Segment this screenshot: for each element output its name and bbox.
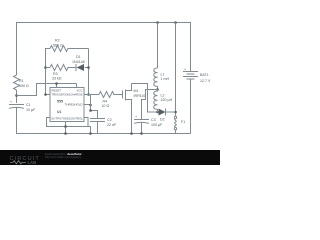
svg-text:100 µF: 100 µF [151, 123, 163, 127]
svg-text:IRF510: IRF510 [134, 94, 146, 98]
svg-text:1N4148: 1N4148 [72, 60, 85, 64]
svg-text:LAB: LAB [28, 160, 37, 165]
node out rail [89, 132, 92, 135]
svg-text:C3: C3 [151, 118, 156, 122]
svg-text:12.7 V: 12.7 V [200, 79, 211, 83]
svg-text:OUTPUT: OUTPUT [51, 117, 63, 121]
fuse F1 [174, 116, 176, 118]
node gnd rail [64, 132, 67, 135]
svg-text:+: + [135, 115, 137, 119]
node top-D2 [174, 21, 177, 24]
transistor M1 [114, 94, 123, 96]
svg-text:L1: L1 [161, 73, 165, 77]
capacitor C2 [90, 118, 105, 120]
svg-text:+: + [10, 100, 12, 104]
wire C2 drop [91, 95, 98, 119]
node threshold [89, 104, 92, 107]
wire D2 cathode drop [175, 23, 177, 117]
wire gnd stub [65, 122, 67, 134]
svg-text:M1: M1 [134, 89, 139, 93]
wire R1 to C1 [16, 90, 18, 103]
wire C2 to gnd [97, 122, 99, 134]
node source rail [130, 132, 133, 135]
node B [156, 88, 159, 91]
wire C1 to gnd [17, 108, 191, 134]
wire C3 jog [142, 90, 158, 120]
node D1 right [87, 66, 90, 69]
svg-text:560 Ω: 560 Ω [53, 44, 63, 48]
pin vcc stub [76, 84, 78, 88]
node drain [156, 111, 159, 114]
svg-text:22 nF: 22 nF [107, 123, 117, 127]
node reset-vcc [55, 82, 58, 85]
wire vcc filter [17, 84, 77, 96]
wire top rail [17, 23, 191, 76]
svg-text:D1: D1 [76, 55, 81, 59]
footer bar [0, 150, 220, 165]
wire drain bracket [132, 84, 158, 113]
wire threshold [84, 104, 91, 106]
capacitor C1 [9, 104, 24, 106]
diode D2 [158, 111, 159, 113]
svg-text:555: 555 [57, 100, 63, 104]
wire battery neg [190, 79, 192, 134]
svg-text:10 Ω: 10 Ω [102, 104, 110, 108]
node C2 [89, 109, 92, 112]
resistor R3 [50, 65, 72, 71]
battery BAT1 [183, 71, 198, 73]
svg-text:D2: D2 [160, 118, 165, 122]
svg-text:R4: R4 [103, 100, 108, 104]
node trig [44, 93, 47, 96]
wire discharge column [88, 49, 90, 95]
svg-text:33 kΩ: 33 kΩ [52, 77, 62, 81]
resistor R4 [99, 92, 122, 98]
wire R3 stub [46, 67, 51, 69]
node D2 cathode [174, 111, 177, 114]
wire output [47, 118, 91, 134]
node gnd [64, 125, 67, 128]
svg-text:CONTROL: CONTROL [69, 117, 84, 121]
svg-text:C1: C1 [26, 103, 31, 107]
svg-text:C2: C2 [107, 118, 112, 122]
svg-text:TRIGGER: TRIGGER [52, 93, 65, 97]
wire trigger column [46, 49, 51, 95]
inductor L2 [154, 90, 158, 113]
svg-text:1 mH: 1 mH [161, 77, 170, 81]
resistor R2 [50, 46, 89, 52]
IC U1 555 box [50, 88, 84, 122]
svg-text:http://circuitlab.com/cqw4nty: http://circuitlab.com/cqw4nty [45, 155, 82, 159]
svg-text:R1: R1 [19, 79, 24, 83]
svg-text:F1: F1 [181, 120, 185, 124]
wire L1 feed [157, 23, 159, 69]
svg-text:220 µH: 220 µH [161, 98, 173, 102]
node R3 left [44, 66, 47, 69]
resistor R1 [14, 75, 20, 90]
wire C3 to gnd [141, 123, 143, 134]
logo CircuitLab [10, 152, 83, 165]
svg-text:L2: L2 [161, 94, 165, 98]
diode D1 [77, 64, 85, 71]
capacitor C3 [134, 119, 149, 121]
node top-L1 [156, 21, 159, 24]
svg-text:THRESHOLD: THRESHOLD [65, 103, 83, 107]
svg-text:DISCHARGE: DISCHARGE [65, 93, 82, 97]
svg-text:+: + [184, 68, 186, 72]
node discharge [87, 93, 90, 96]
pin reset stub [56, 84, 58, 88]
svg-text:BAT1: BAT1 [200, 73, 209, 77]
svg-text:U1: U1 [57, 110, 61, 114]
wire discharge to R4 [84, 94, 99, 96]
node C3 rail [140, 132, 143, 135]
svg-text:100 Ω: 100 Ω [19, 84, 29, 88]
svg-text:10 µF: 10 µF [26, 108, 36, 112]
svg-text:R3: R3 [53, 72, 58, 76]
svg-text:R2: R2 [55, 39, 60, 43]
wire control [84, 118, 88, 127]
node A [15, 94, 18, 97]
inductor L1 [154, 68, 158, 89]
